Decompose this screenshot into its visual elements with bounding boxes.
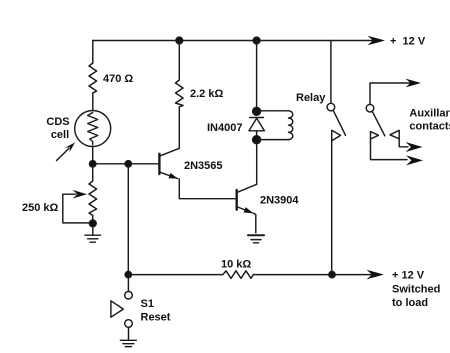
diode D1 IN4007 xyxy=(250,117,264,119)
svg-text:10 kΩ: 10 kΩ xyxy=(221,259,251,271)
relay switch fixed contact xyxy=(332,130,341,140)
arrow +12V top xyxy=(368,36,386,46)
svg-text:+ 12 V: + 12 V xyxy=(390,36,426,48)
wire Q1 emitter to Q2 base xyxy=(179,179,236,199)
aux left contact xyxy=(371,132,379,140)
wire base rail xyxy=(93,163,159,165)
wire bottom rail left xyxy=(128,274,223,276)
wire 2.2k to collector xyxy=(178,107,180,148)
aux common circle xyxy=(366,104,374,112)
arrow CDS pointer xyxy=(57,148,70,160)
ground Q2 xyxy=(248,234,264,236)
wire node A down to pot xyxy=(92,164,94,181)
relay switch arm xyxy=(333,110,345,135)
resistor R2 2.2 kohm xyxy=(176,80,184,107)
svg-text:2N3565: 2N3565 xyxy=(184,160,223,172)
node pot bottom xyxy=(89,220,96,227)
svg-text:2N3904: 2N3904 xyxy=(260,195,299,207)
aux switch arm xyxy=(372,111,385,135)
node junction A xyxy=(90,161,96,167)
switch S1 top circle xyxy=(125,291,133,299)
svg-text:cell: cell xyxy=(51,129,69,141)
photoresistor CDS cell xyxy=(75,111,111,147)
wire Q2 emitter to ground xyxy=(254,213,256,233)
potentiometer R3 250 kohm xyxy=(89,181,97,216)
wire wiper to bottom xyxy=(63,194,90,223)
svg-text:2.2 kΩ: 2.2 kΩ xyxy=(190,88,223,100)
node top rail to 2.2k xyxy=(176,37,183,44)
wire Q2 collector up to diode xyxy=(256,140,258,185)
transistor Q1 2N3565 xyxy=(160,148,179,156)
arrow aux middle xyxy=(406,142,423,152)
svg-text:+ 12 V: + 12 V xyxy=(392,270,425,282)
svg-text:IN4007: IN4007 xyxy=(207,122,242,134)
potentiometer wiper arrow xyxy=(63,193,76,195)
aux common wire xyxy=(370,83,412,104)
svg-text:Relay: Relay xyxy=(296,92,326,104)
wire relay switch to bottom rail xyxy=(331,141,333,275)
transistor Q2 2N3904 xyxy=(235,190,237,210)
aux right contact xyxy=(390,130,399,139)
node diode cathode bottom xyxy=(253,136,261,144)
node bottom rail relay xyxy=(329,271,335,277)
wire left vertical xyxy=(92,41,94,64)
wire CDS to node xyxy=(92,147,94,164)
wire top rail xyxy=(93,40,374,42)
wire aux right contact to arrow xyxy=(399,139,408,147)
switch S1 button xyxy=(111,301,123,317)
wire bottom rail right xyxy=(253,274,375,276)
svg-text:Switched: Switched xyxy=(392,284,440,296)
ground S1 xyxy=(120,339,136,341)
resistor R4 10 kohm xyxy=(223,271,253,279)
wire 470 to CDS xyxy=(92,93,94,111)
arrow +12V bottom xyxy=(367,270,385,280)
svg-text:CDS: CDS xyxy=(46,116,69,128)
relay coil K1 xyxy=(258,110,289,112)
svg-text:contacts: contacts xyxy=(409,121,450,133)
switch S1 bottom circle xyxy=(125,320,133,328)
svg-text:Reset: Reset xyxy=(141,312,171,324)
wire S1 to ground xyxy=(128,327,130,340)
resistor R1 470 ohm xyxy=(89,63,97,93)
svg-text:470 Ω: 470 Ω xyxy=(103,73,133,85)
node diode anode top xyxy=(253,107,261,115)
arrow aux bottom xyxy=(406,155,423,165)
node diode top rail xyxy=(253,37,260,44)
svg-text:250 kΩ: 250 kΩ xyxy=(22,202,59,214)
wire aux left contact to arrow xyxy=(371,139,408,160)
arrow aux top xyxy=(406,79,422,88)
svg-text:S1: S1 xyxy=(141,298,154,310)
wire rail to S1 xyxy=(127,275,129,292)
wire rail down to diode xyxy=(256,41,258,112)
wire node B down to bottom rail xyxy=(127,164,129,275)
svg-text:Auxillary: Auxillary xyxy=(409,108,450,120)
svg-text:to load: to load xyxy=(392,297,428,309)
node junction B xyxy=(125,161,131,167)
ground pot xyxy=(92,227,94,235)
wire top to 2.2k xyxy=(178,41,180,81)
wire rail down to relay switch xyxy=(330,41,332,104)
relay switch contact circle xyxy=(327,103,335,111)
node bottom rail left xyxy=(125,271,131,277)
